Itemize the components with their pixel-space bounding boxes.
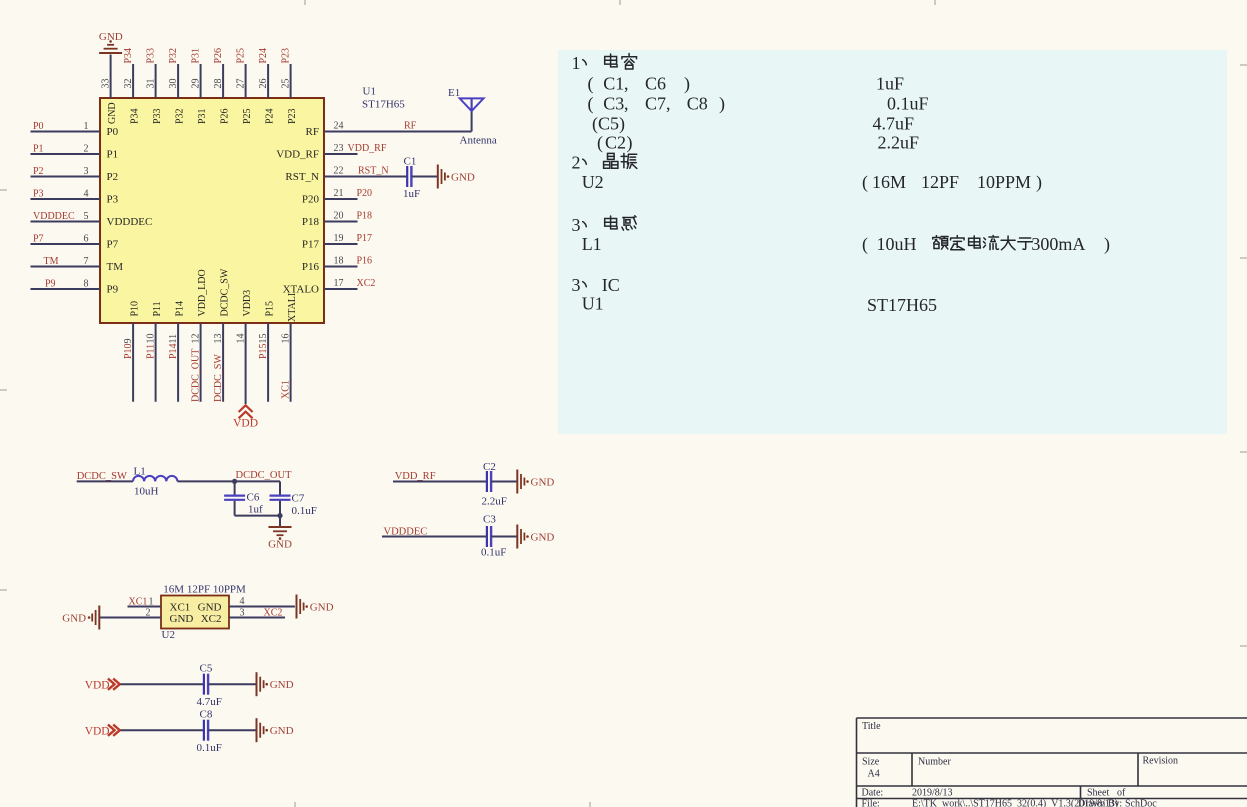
svg-text:GND: GND	[170, 613, 194, 625]
svg-text:C8: C8	[687, 94, 708, 114]
svg-text:(: (	[597, 133, 603, 154]
svg-text:C7: C7	[645, 94, 666, 114]
wire pin 16 bottom	[290, 323, 292, 402]
wire pin 4 P3 left	[31, 198, 101, 200]
svg-text:1: 1	[84, 121, 89, 132]
notes background box	[558, 50, 1227, 434]
svg-text:23: 23	[334, 143, 344, 154]
svg-text:L1: L1	[134, 466, 146, 478]
svg-text:IC: IC	[602, 275, 620, 295]
wire pin 11 bottom	[177, 323, 179, 402]
svg-text:27: 27	[236, 79, 247, 89]
wire VDD_RF to C2	[393, 481, 487, 483]
svg-text:XC1: XC1	[170, 602, 191, 614]
wire C2 to ground	[491, 481, 517, 483]
svg-text:DCDC_OUT: DCDC_OUT	[191, 349, 202, 402]
svg-text:10: 10	[146, 334, 157, 344]
wire XC1 to crystal pin 1	[128, 606, 162, 608]
svg-text:GND: GND	[268, 539, 292, 551]
svg-text:3: 3	[572, 275, 581, 295]
wire DCDC_SW to inductor L1	[77, 480, 133, 482]
svg-text:1: 1	[572, 53, 581, 73]
svg-text:15: 15	[258, 334, 269, 344]
svg-text:19: 19	[334, 233, 344, 244]
capacitor C8	[203, 720, 205, 741]
svg-text:4: 4	[84, 189, 89, 200]
svg-text:13: 13	[213, 334, 224, 344]
capacitor C7	[279, 481, 281, 494]
svg-text:31: 31	[146, 79, 157, 89]
svg-text:9: 9	[123, 339, 134, 344]
antenna E1 symbol	[460, 98, 484, 111]
svg-text:1uf: 1uf	[248, 504, 263, 516]
capacitor C2	[486, 471, 488, 492]
svg-text:VDD_RF: VDD_RF	[395, 471, 436, 482]
wire ground to crystal pin 2	[99, 617, 161, 619]
svg-text:P11: P11	[146, 344, 157, 359]
svg-text:24: 24	[334, 121, 344, 132]
svg-text:): )	[1036, 172, 1042, 193]
svg-text:XC2: XC2	[201, 613, 222, 625]
svg-text:10uH: 10uH	[134, 486, 159, 498]
svg-text:VDD3: VDD3	[242, 290, 253, 317]
wire RF pin 24 to antenna	[324, 131, 472, 133]
wire pin 21 right stub	[324, 198, 358, 200]
wire pin 23 right stub	[324, 153, 358, 155]
svg-text:Antenna: Antenna	[460, 135, 497, 147]
svg-text:TM: TM	[107, 261, 124, 273]
svg-text:C7: C7	[292, 493, 305, 505]
svg-text:5: 5	[84, 211, 89, 222]
svg-text:GND: GND	[62, 612, 86, 624]
svg-text:P0: P0	[107, 126, 119, 138]
wire pin 15 bottom	[267, 323, 269, 402]
svg-text:XTALO: XTALO	[283, 284, 319, 296]
svg-text:Size: Size	[862, 757, 880, 768]
svg-text:(: (	[862, 172, 868, 193]
svg-text:0.1uF: 0.1uF	[292, 505, 317, 517]
svg-text:0.1uF: 0.1uF	[887, 94, 929, 114]
svg-text:14: 14	[236, 334, 247, 344]
ground GND below C7	[269, 526, 292, 528]
svg-text:P7: P7	[107, 239, 119, 251]
svg-text:,: ,	[666, 94, 671, 114]
title block frame	[857, 718, 1247, 807]
svg-text:ST17H65: ST17H65	[362, 99, 405, 111]
svg-text:3: 3	[572, 215, 581, 235]
svg-text:U1: U1	[582, 294, 604, 314]
svg-text:2019/8/13: 2019/8/13	[912, 788, 953, 799]
svg-text:P15: P15	[258, 343, 269, 359]
wire C3 to ground	[491, 536, 517, 538]
svg-text:3: 3	[84, 166, 89, 177]
svg-text:XTALI: XTALI	[287, 293, 298, 322]
svg-text:P18: P18	[357, 211, 373, 222]
svg-text:P14: P14	[168, 343, 179, 359]
wire pin 3 P2 left	[31, 176, 101, 178]
svg-text:(: (	[862, 234, 868, 255]
svg-text:Date:: Date:	[862, 788, 884, 799]
svg-text:RST_N: RST_N	[358, 166, 389, 177]
wire pin 31 top	[155, 64, 157, 98]
svg-text:C1: C1	[404, 156, 417, 168]
wire pin 33 top	[110, 55, 112, 99]
ground GND right of C8	[256, 718, 258, 742]
svg-text:P33: P33	[152, 108, 163, 124]
svg-text:ST17H65: ST17H65	[867, 295, 937, 315]
svg-text:GND: GND	[310, 601, 334, 613]
svg-text:300mA: 300mA	[1031, 234, 1085, 254]
svg-text:SchDoc: SchDoc	[1125, 799, 1157, 807]
svg-text:12: 12	[191, 334, 202, 344]
wire pin 2 P1 left	[31, 153, 101, 155]
svg-text:C6: C6	[645, 74, 666, 94]
wire crystal pin 3 XC2	[229, 617, 285, 619]
wire pin 8 P9 left	[31, 288, 101, 290]
svg-text:C2: C2	[483, 461, 496, 473]
svg-text:4: 4	[240, 596, 245, 607]
wire pin 5 VDDDEC left	[31, 221, 101, 223]
wire C1 to ground	[411, 176, 437, 178]
wire VDDDEC to C3	[382, 536, 487, 538]
sheet edge tick marks	[0, 189, 7, 191]
svg-text:4.7uF: 4.7uF	[197, 696, 222, 708]
wire pin 6 P7 left	[31, 243, 101, 245]
wire pin 27 top	[245, 64, 247, 98]
svg-text:DCDC_SW: DCDC_SW	[77, 471, 127, 482]
wire VDD to C8	[121, 729, 205, 731]
svg-text:P32: P32	[168, 48, 179, 64]
svg-text:GND: GND	[531, 476, 555, 488]
svg-text:P3: P3	[107, 194, 119, 206]
svg-text:11: 11	[168, 334, 179, 344]
svg-text:16: 16	[281, 334, 292, 344]
inductor L1	[133, 476, 177, 482]
svg-text:29: 29	[191, 79, 202, 89]
svg-text:P18: P18	[302, 216, 320, 228]
svg-text:28: 28	[213, 79, 224, 89]
wire pin 28 top	[222, 64, 224, 98]
svg-text:RST_N: RST_N	[285, 171, 319, 183]
wire C6 bottom to C7 bottom	[235, 515, 280, 517]
svg-text:C8: C8	[200, 709, 213, 721]
svg-text:P23: P23	[287, 108, 298, 124]
svg-text:U1: U1	[363, 86, 376, 98]
capacitor C1	[406, 166, 408, 187]
ground GND right of crystal	[296, 595, 298, 619]
svg-text:VDD_RF: VDD_RF	[348, 143, 387, 154]
wire pin 10 bottom	[155, 323, 157, 402]
svg-text:P0: P0	[33, 121, 44, 132]
svg-text:P33: P33	[146, 48, 157, 64]
svg-text:P26: P26	[213, 48, 224, 64]
svg-text:,: ,	[624, 74, 629, 94]
svg-text:2.2uF: 2.2uF	[482, 496, 507, 508]
svg-text:VDDDEC: VDDDEC	[33, 211, 75, 222]
svg-text:32: 32	[123, 79, 134, 89]
ground GND right of C5	[256, 672, 258, 696]
svg-text:DCDC_SW: DCDC_SW	[219, 268, 230, 316]
wire C8 to ground	[208, 729, 256, 731]
svg-text:P24: P24	[264, 108, 275, 124]
svg-text:30: 30	[168, 79, 179, 89]
svg-text:0.1uF: 0.1uF	[197, 742, 222, 754]
svg-text:Title: Title	[862, 721, 881, 732]
svg-text:P3: P3	[33, 189, 44, 200]
svg-text:DCDC_SW: DCDC_SW	[213, 354, 224, 402]
svg-text:VDD: VDD	[85, 680, 110, 692]
wire pin 1 P0 left	[31, 131, 101, 133]
svg-text:DCDC_OUT: DCDC_OUT	[236, 470, 293, 481]
wire pin 12 bottom	[200, 323, 202, 402]
junction node DCDC_OUT	[232, 479, 237, 484]
svg-text:0.1uF: 0.1uF	[481, 547, 506, 559]
svg-text:P11: P11	[152, 301, 163, 316]
svg-text:GND: GND	[270, 725, 294, 737]
ground GND right of C1	[437, 165, 439, 189]
svg-text:GND: GND	[198, 602, 222, 614]
svg-text:P32: P32	[174, 108, 185, 124]
svg-text:26: 26	[258, 79, 269, 89]
svg-text:GND: GND	[107, 102, 118, 124]
svg-text:P15: P15	[264, 301, 275, 317]
svg-text:P1: P1	[107, 149, 119, 161]
svg-text:L1: L1	[582, 234, 602, 254]
wire C5 to ground	[208, 683, 256, 685]
wire VDD to C5	[121, 683, 205, 685]
svg-text:VDD_LDO: VDD_LDO	[197, 269, 208, 316]
junction node at C7 bottom	[277, 513, 282, 518]
svg-text:,: ,	[624, 94, 629, 114]
svg-text:33: 33	[101, 79, 112, 89]
capacitor C5	[203, 674, 205, 695]
svg-text:XC2: XC2	[264, 608, 283, 619]
svg-text:Number: Number	[918, 757, 951, 768]
wire pin 18 right stub	[324, 266, 358, 268]
svg-text:VDDDEC: VDDDEC	[107, 216, 153, 228]
svg-text:1uF: 1uF	[403, 188, 420, 200]
svg-text:7: 7	[84, 256, 89, 267]
svg-text:Sheet: Sheet	[1087, 788, 1109, 799]
svg-text:TM: TM	[44, 256, 59, 267]
svg-text:(: (	[588, 94, 594, 115]
svg-text:C3: C3	[603, 94, 624, 114]
svg-text:U2: U2	[162, 629, 175, 641]
svg-text:GND: GND	[451, 171, 475, 183]
svg-text:18: 18	[334, 256, 344, 267]
svg-text:P23: P23	[281, 48, 292, 64]
svg-text:25: 25	[281, 79, 292, 89]
svg-text:RF: RF	[404, 121, 417, 132]
wire pin 17 right stub	[324, 288, 358, 290]
svg-text:C5: C5	[200, 663, 213, 675]
svg-text:P34: P34	[129, 108, 140, 124]
svg-text:P26: P26	[219, 108, 230, 124]
svg-text:20: 20	[334, 211, 344, 222]
wire pin 26 top	[267, 64, 269, 98]
power port VDD below pin 14	[239, 405, 253, 412]
svg-text:P24: P24	[258, 48, 269, 64]
svg-text:GND: GND	[99, 31, 123, 43]
op IC U1 body	[100, 98, 324, 323]
ground GND left of crystal	[98, 606, 100, 630]
svg-text:): )	[627, 133, 633, 154]
svg-text:16M: 16M	[872, 172, 906, 192]
svg-text:P1: P1	[33, 144, 44, 155]
svg-text:P34: P34	[123, 48, 134, 64]
svg-text:P25: P25	[236, 48, 247, 64]
ground GND right of C3	[516, 525, 518, 549]
wire pin 13 bottom	[222, 323, 224, 402]
svg-text:File:: File:	[862, 799, 880, 807]
svg-text:VDD: VDD	[233, 418, 258, 430]
ground GND right of C2	[516, 470, 518, 494]
wire crystal pin 4 to ground	[229, 606, 295, 608]
svg-text:P16: P16	[302, 261, 320, 273]
wire pin 7 TM left	[31, 266, 101, 268]
wire pin 20 right stub	[324, 221, 358, 223]
svg-text:): )	[684, 74, 690, 95]
svg-text:P31: P31	[191, 48, 202, 64]
wire antenna stem	[471, 98, 473, 131]
svg-text:P31: P31	[197, 108, 208, 124]
svg-text:12PF: 12PF	[921, 172, 959, 192]
svg-text:(: (	[588, 74, 594, 95]
capacitor C3	[486, 526, 488, 547]
svg-text:10PPM: 10PPM	[977, 172, 1031, 192]
svg-text:U2: U2	[582, 172, 604, 192]
svg-text:Drawn By:: Drawn By:	[1078, 799, 1122, 807]
svg-text:22: 22	[334, 166, 344, 177]
wire pin 19 right stub	[324, 243, 358, 245]
svg-text:): )	[1104, 234, 1110, 255]
svg-text:GND: GND	[270, 679, 294, 691]
crystal U2 body	[161, 596, 229, 629]
svg-text:16M 12PF 10PPM: 16M 12PF 10PPM	[163, 584, 246, 596]
svg-text:RF: RF	[306, 126, 319, 138]
ground GND top-left earth symbol	[99, 52, 122, 54]
svg-text:17: 17	[334, 278, 344, 289]
svg-text:10uH: 10uH	[877, 234, 917, 254]
wire pin 14 bottom	[245, 323, 247, 404]
svg-text:E1: E1	[448, 87, 460, 99]
svg-text:2: 2	[572, 153, 581, 173]
svg-text:2.2uF: 2.2uF	[878, 133, 920, 153]
capacitor C6	[234, 481, 236, 494]
wire down to ground	[279, 516, 281, 527]
svg-text:P10: P10	[129, 301, 140, 317]
wire pin 25 top	[290, 64, 292, 98]
svg-text:P20: P20	[302, 194, 320, 206]
svg-text:A4: A4	[868, 769, 880, 780]
svg-text:8: 8	[84, 279, 89, 290]
svg-text:P17: P17	[357, 233, 373, 244]
svg-text:XC2: XC2	[357, 278, 376, 289]
wire pin 30 top	[177, 64, 179, 98]
svg-text:P7: P7	[33, 234, 44, 245]
svg-text:C2: C2	[605, 133, 626, 153]
wire pin 32 top	[132, 64, 134, 98]
svg-text:XC1: XC1	[281, 380, 292, 399]
svg-text:): )	[719, 94, 725, 115]
svg-text:VDD_RF: VDD_RF	[276, 149, 319, 161]
svg-text:P14: P14	[174, 301, 185, 317]
svg-text:P10: P10	[123, 343, 134, 359]
svg-text:P2: P2	[107, 171, 119, 183]
wire L1 to DCDC_OUT node	[177, 480, 280, 482]
svg-text:P17: P17	[302, 239, 320, 251]
svg-text:P2: P2	[33, 166, 44, 177]
svg-text:C6: C6	[247, 492, 260, 504]
svg-text:GND: GND	[531, 531, 555, 543]
wire pin 9 bottom	[132, 323, 134, 402]
svg-text:P16: P16	[357, 256, 373, 267]
svg-text:P9: P9	[45, 279, 56, 290]
svg-text:of: of	[1117, 788, 1126, 799]
svg-text:P25: P25	[242, 108, 253, 124]
svg-text:VDD: VDD	[85, 726, 110, 738]
wire pin 29 top	[200, 64, 202, 98]
svg-text:6: 6	[84, 234, 89, 245]
svg-text:Revision: Revision	[1143, 756, 1179, 767]
svg-text:2: 2	[84, 144, 89, 155]
svg-text:4.7uF: 4.7uF	[873, 114, 915, 134]
svg-text:1uF: 1uF	[876, 74, 904, 94]
wire RST_N pin 22 to C1	[324, 176, 407, 178]
svg-text:C3: C3	[483, 514, 496, 526]
svg-text:(C5): (C5)	[592, 114, 625, 135]
svg-text:C1: C1	[603, 74, 624, 94]
svg-text:P9: P9	[107, 284, 119, 296]
svg-text:P20: P20	[357, 188, 373, 199]
svg-text:21: 21	[334, 188, 344, 199]
